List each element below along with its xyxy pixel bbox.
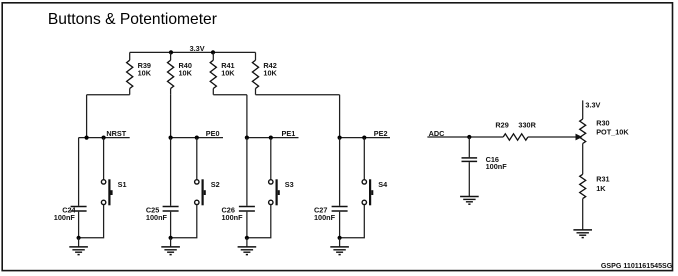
- wire: [582, 199, 584, 230]
- switch S1: [101, 180, 105, 184]
- wire: [339, 238, 341, 247]
- svg-text:PE0: PE0: [206, 129, 220, 138]
- svg-text:S3: S3: [285, 180, 294, 189]
- capacitor C16: [462, 157, 478, 159]
- wire: [363, 138, 365, 180]
- resistor R41: [212, 52, 214, 60]
- capacitor C27: [332, 206, 348, 208]
- svg-text:PE1: PE1: [282, 129, 296, 138]
- wire switch to ground net: [79, 205, 104, 238]
- svg-text:3.3V: 3.3V: [190, 44, 205, 53]
- node junction NRST-left: [85, 136, 89, 140]
- ground: [161, 246, 180, 248]
- ground: [330, 246, 349, 248]
- svg-text:10K: 10K: [138, 68, 152, 77]
- svg-text:S4: S4: [378, 180, 388, 189]
- wire: [78, 238, 80, 247]
- resistor R42: [255, 52, 257, 60]
- resistor R31: [580, 174, 586, 198]
- wire switch to ground net: [340, 205, 365, 238]
- potentiometer R30: [580, 119, 586, 143]
- svg-text:330R: 330R: [518, 121, 536, 130]
- node PE2: [340, 137, 390, 139]
- switch S4: [362, 180, 366, 184]
- wire R39 to NRST: [87, 95, 130, 138]
- node junction PE1-left: [245, 136, 249, 140]
- svg-text:ADC: ADC: [429, 129, 446, 138]
- node junction PE2-switch: [362, 136, 366, 140]
- svg-text:R31: R31: [596, 175, 609, 184]
- resistor R29: [503, 134, 528, 140]
- wire: [582, 100, 584, 119]
- svg-text:100nF: 100nF: [486, 162, 508, 171]
- ground: [238, 246, 257, 248]
- node PE1: [247, 137, 299, 139]
- node junction PE0-left: [169, 136, 173, 140]
- wire: [246, 238, 248, 247]
- wire R42 to PE2: [256, 95, 340, 138]
- capacitor C24: [71, 206, 87, 208]
- node ADC: [427, 136, 503, 138]
- wire: [582, 144, 584, 175]
- node junction bottom: [77, 236, 81, 240]
- ground C16: [460, 196, 479, 198]
- wire: [468, 162, 470, 196]
- node junction PE0-switch: [195, 136, 199, 140]
- svg-text:100nF: 100nF: [146, 213, 168, 222]
- resistor R40: [170, 52, 172, 60]
- node junction rail-R40: [169, 50, 173, 54]
- wire: [339, 138, 341, 206]
- svg-text:10K: 10K: [179, 68, 193, 77]
- node junction PE1-switch: [269, 136, 273, 140]
- svg-text:R29: R29: [495, 121, 508, 130]
- node junction PE2-left: [338, 136, 342, 140]
- wire: [196, 138, 198, 180]
- svg-text:S2: S2: [211, 180, 220, 189]
- node junction bottom: [169, 236, 173, 240]
- svg-text:100nF: 100nF: [54, 213, 76, 222]
- wire R29 to potentiometer wiper: [528, 136, 576, 138]
- svg-text:NRST: NRST: [106, 129, 126, 138]
- node junction bottom: [245, 236, 249, 240]
- node junction NRST-switch: [102, 136, 106, 140]
- ground: [69, 246, 88, 248]
- wiper arrow: [576, 134, 582, 140]
- node NRST: [79, 137, 130, 139]
- node junction bottom: [338, 236, 342, 240]
- svg-text:R30: R30: [596, 119, 609, 128]
- resistor R39: [129, 52, 131, 60]
- wire: [339, 212, 341, 238]
- capacitor C26: [239, 206, 255, 208]
- svg-text:1K: 1K: [596, 184, 606, 193]
- svg-text:S1: S1: [118, 180, 127, 189]
- wire R40 down: [170, 95, 172, 138]
- node junction ADC-C16: [467, 135, 471, 139]
- svg-text:3.3V: 3.3V: [585, 101, 600, 110]
- svg-text:10K: 10K: [263, 68, 277, 77]
- wire R41 to PE1: [213, 95, 247, 138]
- svg-text:100nF: 100nF: [314, 213, 336, 222]
- svg-text:POT_10K: POT_10K: [596, 128, 629, 137]
- wire: [246, 138, 248, 206]
- wire: [78, 138, 80, 206]
- switch S2: [195, 180, 199, 184]
- wire: [103, 138, 105, 180]
- svg-text:10K: 10K: [221, 68, 235, 77]
- ground pot: [573, 229, 592, 231]
- wire 3.3V rail: [130, 51, 256, 53]
- svg-text:PE2: PE2: [374, 129, 388, 138]
- wire: [170, 238, 172, 247]
- wire: [246, 212, 248, 238]
- wire: [170, 138, 172, 206]
- node PE0: [171, 137, 223, 139]
- switch S3: [269, 180, 273, 184]
- wire switch to ground net: [247, 205, 271, 238]
- svg-text:GSPG 1101161545SG: GSPG 1101161545SG: [601, 262, 673, 270]
- wire: [78, 212, 80, 238]
- svg-text:100nF: 100nF: [222, 213, 244, 222]
- wire: [170, 212, 172, 238]
- wire: [270, 138, 272, 180]
- capacitor C25: [163, 206, 179, 208]
- node junction rail-R41: [211, 50, 215, 54]
- wire: [468, 137, 470, 157]
- wire switch to ground net: [171, 205, 197, 238]
- svg-text:Buttons & Potentiometer: Buttons & Potentiometer: [48, 11, 217, 28]
